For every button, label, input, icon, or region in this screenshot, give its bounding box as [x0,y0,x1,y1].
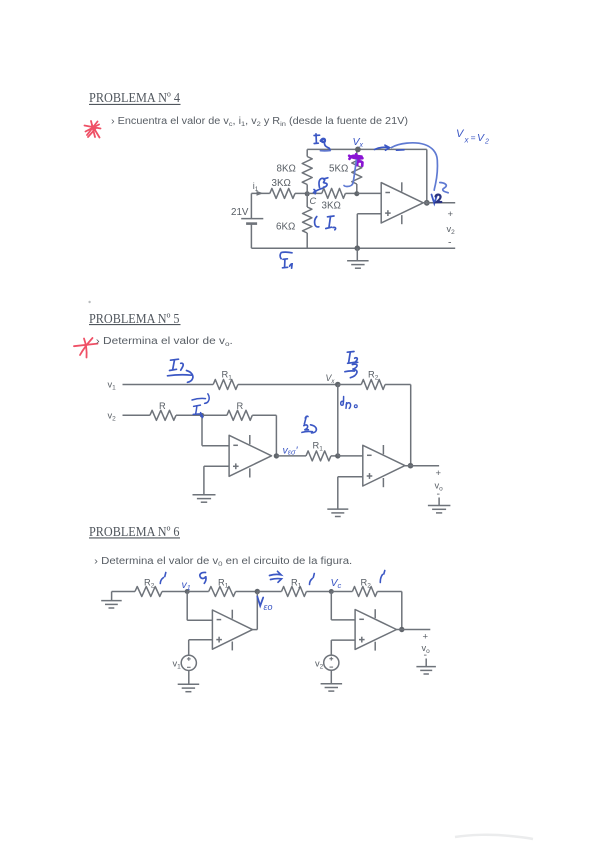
svg-text:v1: v1 [173,659,182,671]
wire feedback from top rail to output [426,149,428,202]
svg-text:Vx: Vx [353,136,364,149]
op-amp U5 [355,609,396,650]
svg-text:› Determina el valor de v0 en: › Determina el valor de v0 en el circuit… [94,556,352,568]
svg-text:› Encuentra el valor de vc, i1: › Encuentra el valor de vc, i1, v2 y Rin… [111,116,408,128]
svg-text:Vc: Vc [331,577,342,590]
svg-text:C: C [310,196,317,206]
svg-text:+: + [448,209,454,220]
node v1 [185,589,190,594]
annotation blue Vc at node vc [331,577,342,590]
wire v1 line to R1 [123,384,214,386]
wire op-amp1 plus to source v1 [189,640,213,656]
annotation blue I2 curl at R3 [302,416,317,433]
output node op-amp2 [399,627,404,632]
op-amp2 output node [408,463,414,469]
node C [305,191,317,206]
annotation blue I1 with arrow [168,359,193,382]
annotation blue tick after R1 second [310,574,315,585]
wire R1 to node 2 [236,591,258,593]
node Vx [326,373,341,387]
wire R2 to node v1 [162,591,187,593]
ground output terminal [416,659,436,675]
resistor R1 [213,370,238,390]
wire feedback R to output corner [252,415,276,456]
resistor R2 second feedback [331,578,377,597]
svg-text:i1: i1 [253,181,259,193]
svg-text:21V: 21V [231,207,249,218]
wire op-amp1 plus to ground [204,466,229,494]
wire resistor to node C [295,192,307,194]
resistor R1 first feedback [187,578,235,597]
node ground junction on bottom rail [355,245,361,251]
svg-text:PROBLEMA Nº 6: PROBLEMA Nº 6 [89,524,180,539]
battery V1 21V [231,207,263,224]
wire source v1 to ground [188,671,190,685]
wire bottom rail [251,247,455,249]
node 2 op-amp1 output [255,589,260,594]
wire source v2 to ground [330,670,332,683]
svg-text:R: R [159,401,166,411]
annotation blue I2 arrow at Vx [345,352,358,378]
svg-text:V: V [477,132,485,144]
op-amp U1 [381,182,423,224]
annotation blue arrow on top rail [375,145,405,150]
svg-text:=: = [471,133,476,143]
wire summing node to op-amp1 minus [202,415,229,445]
annotation blue v2 at output [432,195,442,204]
problem 5 statement text [96,336,233,348]
svg-text:R2: R2 [368,370,379,382]
ground op-amp2 [327,509,348,516]
wire from battery to resistor 3K [251,192,269,194]
annotation blue stroke along 5K resistor [344,160,356,187]
annotation blue Vx=V2 top right [456,128,489,146]
wire node vc to op-amp2 minus [331,592,355,620]
node vc [329,589,334,594]
svg-text:v2: v2 [447,224,456,236]
annotation blue v1 at node [182,579,191,592]
annotation blue I1 bottom hook [280,252,292,268]
svg-text:PROBLEMA Nº 4: PROBLEMA Nº 4 [89,90,180,105]
resistor R3 middle [276,441,331,461]
wire R to summing node [176,414,202,416]
annotation blue veo below node 2 [257,597,272,613]
annotation blue tick after R2 second [380,571,385,583]
svg-text:R: R [237,401,244,411]
op-amp U3 [363,445,405,487]
output terminal labels + v2 - [447,209,456,249]
svg-text:› Determina el valor de vo.: › Determina el valor de vo. [96,336,233,348]
op-amp U2 [229,435,271,478]
annotation blue beta scribble at node [314,178,328,194]
heading PROBLEMA 4 [89,90,181,105]
ground op-amp1 [193,495,216,502]
wire left branch from battery [250,193,252,248]
wire output to terminal [423,202,455,204]
output terminal labels + v0 - [422,632,431,662]
source v1 circle [173,655,197,670]
ground source v1 [178,684,200,691]
resistor R2 input [135,578,162,597]
node at 3K-5K junction [354,191,359,196]
annotation blue vo prime [283,445,299,457]
summing node [200,413,205,418]
output node [424,200,430,206]
wire op-amp2 plus to source v2 [331,640,355,655]
annotation blue Vx label [353,136,364,149]
wire Vx vertical [337,385,339,456]
red asterisk annotation [85,121,101,138]
wire output to terminal [397,629,431,631]
ground source v2 [321,684,343,691]
terminal v1 label [108,380,117,392]
svg-text:PROBLEMA Nº 5: PROBLEMA Nº 5 [89,311,180,326]
wire R3 to node under Vx [331,455,338,457]
ground left input [101,592,122,609]
resistor R2 top [338,370,385,390]
svg-text:+: + [423,632,429,643]
annotation blue down arrow and Ik at 6K [315,216,336,230]
svg-text:3KΩ: 3KΩ [272,178,291,189]
svg-text:-: - [448,237,452,249]
wire v2 line to R [123,414,150,416]
faint scan smudge bottom right [455,835,533,839]
annotation blue 9 loop [200,572,206,583]
svg-text:v1: v1 [182,579,191,592]
annotation purple scribble on 5K [349,154,362,166]
wire op-amp2 plus to ground [338,477,363,509]
annotation blue I2 at summing node [192,394,209,418]
op-amp U4 [212,610,252,651]
wire R2 to feedback corner [377,592,402,630]
svg-text:6KΩ: 6KΩ [276,222,295,233]
svg-text:v2: v2 [108,411,117,423]
wire output to terminal vo [405,465,439,467]
terminal v2 label [108,411,117,423]
annotation blue swoosh wire Vx to output [392,143,449,193]
op-amp1 output node [274,453,279,458]
svg-text:x: x [464,136,470,145]
resistor R 3K horizontal left, label 3K&#937; [270,178,295,198]
svg-text:v1: v1 [108,380,117,392]
svg-text:εο: εο [264,602,273,612]
wire R1 to node Vx [238,384,338,386]
svg-text:R1: R1 [313,441,324,453]
svg-text:5KΩ: 5KΩ [329,164,348,175]
wire junction to op-amp minus input [357,192,381,194]
wire ground to R2 [112,591,135,593]
svg-text:8KΩ: 8KΩ [277,164,296,175]
wire top rail [307,148,427,150]
ground at output terminal [428,498,451,513]
red star annotation [74,338,98,358]
ground symbol [347,248,369,268]
wire node v1 to op-amp1 minus [187,592,212,621]
svg-text:vεσ′: vεσ′ [283,445,299,457]
node under Vx [335,453,340,458]
heading PROBLEMA 5 [89,311,181,326]
resistor R1 second [257,578,306,597]
problem 6 statement text [94,556,352,568]
svg-text:+: + [436,468,442,479]
wire R2 to feedback corner [385,385,411,466]
svg-text:v2: v2 [315,659,324,671]
faint scan speck [88,301,90,303]
annotation blue tick after R2 [160,573,166,584]
wire op-amp plus input to bottom rail [357,214,381,248]
svg-text:3KΩ: 3KΩ [322,201,341,212]
svg-text:2: 2 [484,139,489,146]
problem 4 statement text [111,116,408,128]
resistor 6K vertical, label 6K&#937; [276,193,312,248]
resistor 5K vertical, label 5K&#937; [329,149,362,193]
wire node to op-amp2 minus [338,455,363,457]
resistor 3K horizontal right, label 3K&#937; [307,188,357,211]
heading PROBLEMA 6 [89,524,180,539]
node Vx on top rail [355,147,361,153]
resistor 8K vertical, label 8K&#937; [277,149,313,193]
wire op-amp1 output up to node 2 [253,592,258,630]
annotation blue current I3 top [314,134,330,151]
resistor R feedback [202,401,252,420]
wire R1 to node vc [306,591,331,593]
annotation blue down arrow No at Vx vertical [341,397,358,409]
resistor R left [150,401,176,420]
svg-text:Vx: Vx [326,373,336,385]
source v2 circle [315,655,339,670]
annotation blue double arrow above node2 [270,571,282,582]
current label i1 with arrow [253,181,264,196]
output terminal labels + vo - [435,468,444,500]
